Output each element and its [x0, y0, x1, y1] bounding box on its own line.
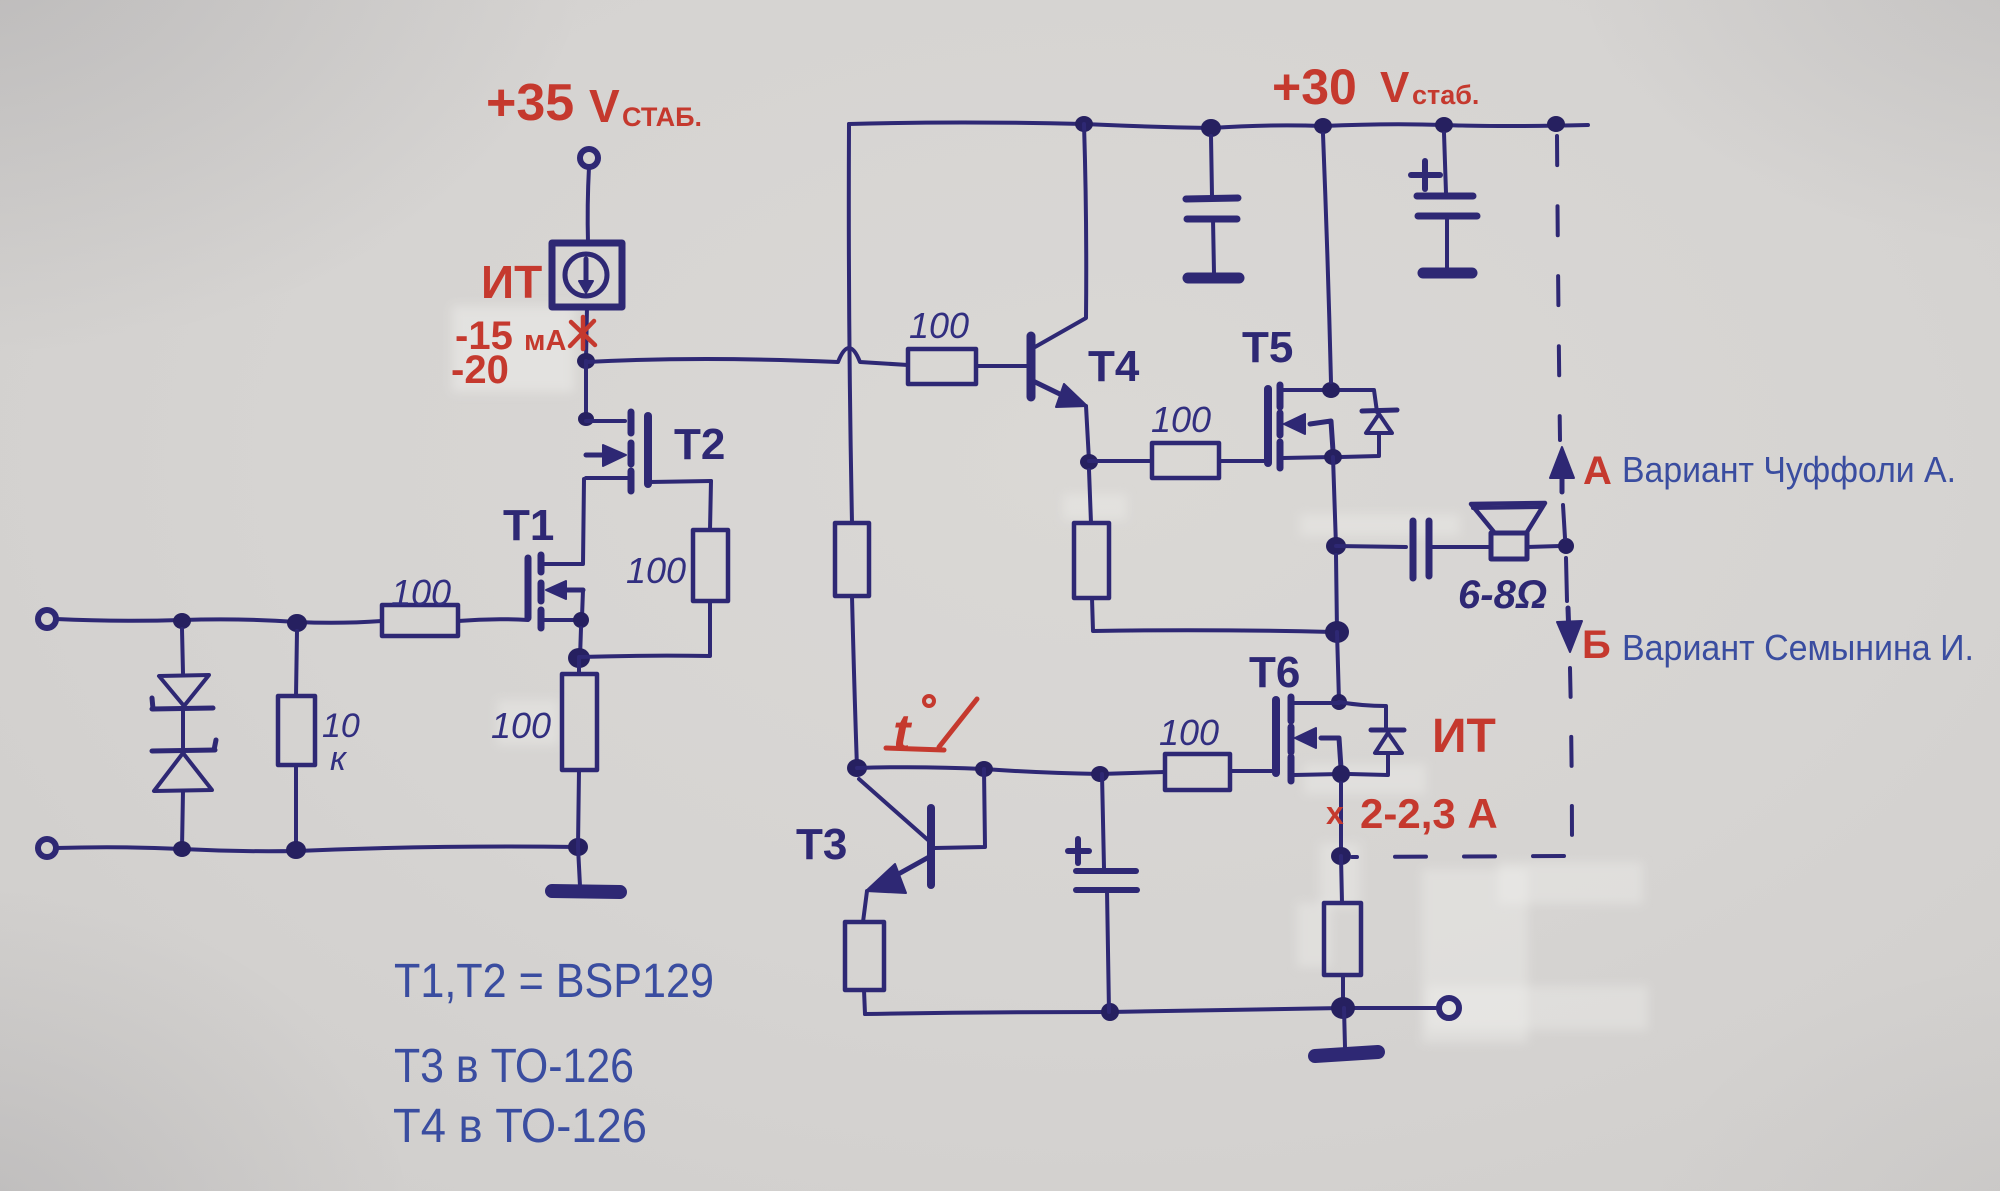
body diode D5 — [1341, 410, 1397, 457]
svg-text:Т6: Т6 — [1249, 648, 1300, 697]
label T1 — [503, 501, 554, 550]
ground C1 — [1188, 273, 1239, 284]
wire T5 gate lead — [1219, 459, 1266, 463]
wire long IT node to T4 base resistor — [586, 348, 908, 365]
svg-text:+30: +30 — [1272, 59, 1357, 115]
wire T6 source lead — [1294, 774, 1341, 775]
bottom rail — [865, 1008, 1438, 1014]
note T3 TO-126 — [394, 1040, 634, 1093]
svg-text:Т4 в ТО-126: Т4 в ТО-126 — [393, 1100, 647, 1153]
svg-text:Т4: Т4 — [1088, 342, 1140, 391]
node input-10k junction — [287, 614, 307, 632]
label T4 — [1088, 342, 1140, 391]
wire cap to speaker — [1432, 545, 1490, 549]
transistor T3 base bar — [927, 808, 935, 885]
arrow B down — [1557, 608, 1582, 652]
svg-text:100: 100 — [1159, 712, 1219, 753]
label T6 — [1249, 648, 1300, 697]
SECTION: ink — [38, 116, 1588, 1056]
node T5 drain — [1322, 382, 1340, 398]
wire T6 source down — [1339, 783, 1343, 855]
resistor R 10k — [278, 696, 315, 765]
svg-text:-20: -20 — [451, 348, 509, 392]
svg-text:Вариант Чуффоли А.: Вариант Чуффоли А. — [1622, 449, 1956, 490]
ground left — [552, 891, 620, 892]
wire T1 drain to T2 source — [544, 479, 584, 564]
label T3 — [796, 820, 847, 869]
capacitor C2 polar — [1417, 196, 1477, 268]
svg-text:100: 100 — [909, 305, 969, 346]
svg-text:к: к — [330, 740, 348, 778]
node rail T4 — [1075, 116, 1093, 132]
wire 10k bottom lead — [294, 765, 298, 850]
wire t-line — [857, 767, 1165, 774]
wire T2 source lead — [586, 476, 628, 480]
wire T2 gate lead — [650, 481, 711, 482]
SECTION: text — [322, 59, 1974, 1153]
body diode D6 — [1349, 730, 1404, 775]
svg-text:Б: Б — [1582, 623, 1611, 667]
capacitor C3 polar — [1076, 871, 1137, 1012]
svg-text:Т1,Т2 = BSP129: Т1,Т2 = BSP129 — [394, 955, 714, 1008]
svg-text:t: t — [893, 704, 913, 762]
wire T5 source lead — [1283, 457, 1333, 458]
capacitor C2 top lead — [1444, 133, 1446, 193]
resistor R-T6-gate 100 — [1165, 754, 1230, 790]
resistor R-T5-gate 100 — [1152, 443, 1219, 478]
node cap3 bottom — [1101, 1003, 1119, 1021]
wire rail to T5 drain — [1323, 134, 1331, 382]
value 100 T5 gate — [1151, 399, 1211, 440]
node dashed corner — [1331, 847, 1351, 865]
label +35V supply — [486, 74, 702, 132]
svg-text:6-8Ω: 6-8Ω — [1458, 573, 1547, 617]
node rail T5 — [1314, 118, 1332, 134]
note T1 T2 BSP129 — [394, 955, 714, 1008]
current source IT box — [552, 243, 622, 307]
value 100 T1 source — [491, 705, 551, 746]
transistor T2 gate bar — [644, 416, 652, 484]
label T2 — [674, 420, 725, 469]
svg-text:Т5: Т5 — [1242, 323, 1293, 372]
svg-text:мА: мА — [524, 325, 566, 357]
zener diode D1 — [152, 675, 213, 709]
wire T4 emitter down — [1089, 470, 1091, 523]
node T1 source — [573, 612, 589, 628]
transistor T5 channel — [1277, 385, 1284, 468]
transistor T6 gate bar — [1272, 700, 1280, 773]
node t-line left — [847, 759, 867, 777]
resistor R-T3-emitter vertical — [845, 922, 884, 990]
wire mid resistor to T6 drain — [1092, 598, 1333, 632]
transistor T1 channel — [538, 555, 545, 628]
svg-text:ИТ: ИТ — [481, 256, 542, 308]
T2 body arrow — [586, 445, 626, 466]
svg-text:Вариант Семынина И.: Вариант Семынина И. — [1622, 627, 1974, 668]
node left ground junction — [568, 838, 588, 856]
svg-text:Т3 в ТО-126: Т3 в ТО-126 — [394, 1040, 634, 1093]
transistor T4 emitter arrow — [1033, 381, 1089, 461]
power terminal +35V — [580, 149, 598, 167]
node T1 source resistor junction — [568, 648, 590, 668]
wire left resistor to t-line — [852, 596, 857, 768]
output terminal — [1439, 998, 1459, 1018]
wire T1 source down — [580, 628, 581, 658]
wire rail left drop — [849, 124, 852, 523]
dashed line vertical top — [1557, 136, 1560, 440]
transistor T3 collector — [859, 779, 928, 840]
svg-text:100: 100 — [1151, 399, 1211, 440]
svg-text:2-2,3 А: 2-2,3 А — [1360, 790, 1498, 837]
wire T3 resistor to bottom rail — [864, 990, 865, 1014]
dashed line horizontal — [1352, 856, 1564, 857]
wire T6 drain lead — [1294, 701, 1339, 705]
svg-text:100: 100 — [491, 705, 551, 746]
T1 body arrow — [546, 581, 583, 617]
transistor T3 emitter arrow — [863, 857, 929, 922]
resistor R-left vertical — [835, 523, 869, 596]
value 100 T2 resistor — [626, 550, 686, 591]
dashed line vertical bottom — [1570, 668, 1572, 852]
svg-text:100: 100 — [391, 572, 451, 613]
node T4 emitter — [1080, 454, 1098, 470]
resistor R-T6-source vertical — [1324, 903, 1361, 975]
capacitor C1 top lead — [1211, 136, 1212, 196]
value 10k — [322, 707, 360, 778]
wire T4 base — [976, 364, 1028, 368]
label IT output stage — [1432, 710, 1496, 763]
label t-degree thermal — [886, 696, 977, 762]
input terminal IN+ — [38, 610, 56, 628]
resistor R-T2 100 vertical — [693, 530, 728, 601]
resistor R-mid vertical — [1074, 523, 1109, 598]
svg-text:Т3: Т3 — [796, 820, 847, 869]
wire T2 drain lead — [586, 419, 625, 423]
label x 2-2.3 A — [1326, 790, 1498, 837]
value 100 T4 base — [909, 305, 969, 346]
wire current source to node — [586, 307, 587, 360]
node T6 source — [1332, 765, 1350, 783]
svg-text:100: 100 — [626, 550, 686, 591]
transistor T5 gate bar — [1264, 389, 1272, 463]
wire speaker to dashed line — [1527, 546, 1560, 547]
svg-text:Т2: Т2 — [674, 420, 725, 469]
plus sign C2 — [1411, 161, 1440, 189]
wire ground stub right — [1344, 1008, 1345, 1047]
node IT output — [577, 353, 595, 369]
red asterisk — [570, 317, 595, 349]
wire 10k top lead — [296, 631, 297, 696]
resistor R-T4-base 100 — [908, 349, 976, 384]
T5 body arrow — [1284, 414, 1333, 451]
wire ground stub left — [578, 847, 580, 886]
wire zener middle — [181, 710, 185, 749]
top supply rail +30V — [849, 123, 1588, 129]
capacitor C3 top lead — [1102, 774, 1104, 868]
svg-text:ИТ: ИТ — [1432, 710, 1496, 763]
wire output node down to T6 — [1336, 555, 1337, 632]
wire node to T6 drain — [1337, 632, 1339, 701]
node rail dashed — [1547, 116, 1565, 132]
label T5 — [1242, 323, 1293, 372]
wire terminal to current source — [588, 167, 589, 243]
svg-text:А: А — [1583, 449, 1612, 493]
arrow A up — [1550, 447, 1574, 492]
wire zener top lead — [182, 629, 183, 673]
T6 body arrow — [1295, 728, 1341, 768]
node bottom ground — [1331, 997, 1355, 1019]
wire T1 source resistor to ground rail — [578, 770, 579, 847]
wire T4 emitter to T5 gate resistor — [1089, 459, 1152, 463]
wire T6 source resistor top — [1341, 856, 1342, 903]
node cap3 t-line — [1091, 766, 1109, 782]
node T5 source — [1324, 449, 1342, 465]
wire T6 drain to diode — [1339, 702, 1386, 729]
note T4 TO-126 — [393, 1100, 647, 1153]
svg-text:+35: +35 — [486, 74, 574, 132]
transistor T4 collector — [1035, 124, 1086, 347]
wire T3 base — [935, 769, 985, 848]
wire T1 source lead — [544, 618, 581, 622]
wire input top rail — [56, 619, 382, 623]
wire input bottom rail — [56, 847, 578, 852]
node input-zener junction — [173, 613, 191, 629]
wire T5 drain lead — [1283, 390, 1377, 412]
transistor T2 channel — [628, 412, 635, 491]
svg-text:стаб.: стаб. — [1412, 80, 1479, 110]
transistor T1 gate bar — [525, 558, 532, 618]
node output — [1326, 537, 1346, 555]
label 15-20 mA — [451, 314, 566, 392]
node T3 base t-line — [975, 761, 993, 777]
wire source node to 100R right — [579, 601, 710, 657]
svg-text:V: V — [1380, 63, 1410, 112]
svg-text:СТАБ.: СТАБ. — [622, 102, 702, 132]
resistor R-input 100 — [382, 605, 458, 636]
coupling capacitor — [1413, 521, 1429, 578]
input terminal IN- — [38, 839, 56, 857]
transistor T6 channel — [1288, 697, 1295, 781]
ground C2 — [1423, 268, 1472, 279]
label IT current source — [481, 256, 542, 308]
value 100 T6 gate — [1159, 712, 1219, 753]
dashed line mid2 — [1566, 558, 1567, 601]
resistor R-T1-source 100 vertical — [562, 674, 597, 770]
label A variant — [1583, 449, 1956, 493]
zener diode D2 — [152, 740, 216, 791]
transistor T4 base bar — [1027, 336, 1036, 397]
wire IT node down to T2 — [584, 361, 588, 419]
label B variant — [1582, 623, 1974, 668]
SECTION: whiteout patches — [452, 306, 1648, 1043]
svg-text:V: V — [589, 80, 620, 132]
ground right — [1315, 1052, 1378, 1056]
wire zener bottom lead — [182, 791, 183, 848]
dashed line mid1 — [1563, 505, 1565, 538]
wire T5 source to output node — [1333, 457, 1336, 546]
wire output to coupling cap — [1336, 546, 1406, 547]
svg-text:Т1: Т1 — [503, 501, 554, 550]
node 10k bottom — [286, 841, 306, 859]
node T2 drain gate — [578, 412, 594, 426]
wire 100R to T2 gate corner — [710, 481, 711, 530]
capacitor C1 — [1186, 198, 1238, 273]
node T6 drain wire — [1325, 621, 1349, 643]
label +30V supply — [1272, 59, 1479, 115]
svg-text:х: х — [1326, 795, 1344, 831]
wire input resistor to T1 gate — [458, 619, 528, 621]
wire source node down — [577, 658, 581, 674]
plus sign C3 — [1068, 839, 1089, 863]
wire T6 gate lead — [1230, 769, 1274, 773]
node rail cap2 — [1435, 117, 1453, 133]
label 6-8 ohm — [1458, 573, 1547, 617]
value 100 input — [391, 572, 451, 613]
wire T6 resistor to bottom rail — [1341, 975, 1345, 1008]
node T6 drain — [1331, 694, 1347, 710]
node speaker dashed — [1558, 538, 1574, 554]
speaker — [1471, 503, 1545, 559]
node rail cap1 — [1201, 119, 1221, 137]
node zener bottom — [173, 841, 191, 857]
